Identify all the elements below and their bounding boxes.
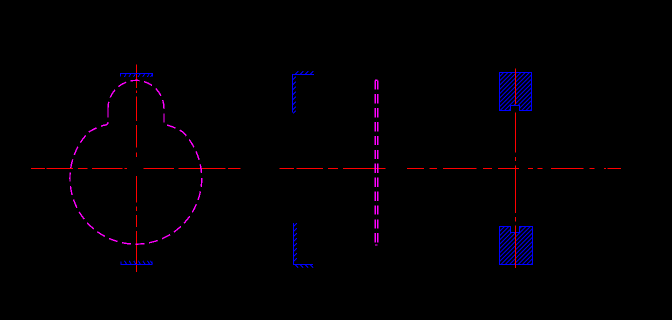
top fixed surface (above cam nose)	[120, 74, 153, 78]
follower plate (hidden outline)	[375, 80, 377, 245]
lower guide block	[500, 227, 533, 265]
lower follower guide bracket	[294, 223, 314, 268]
bottom fixed surface (below cam)	[120, 261, 152, 265]
upper follower guide bracket	[293, 71, 315, 113]
horizontal centerline	[31, 168, 621, 170]
right vertical centerline	[515, 68, 517, 268]
upper guide block	[500, 73, 532, 111]
cam vertical centerline	[136, 64, 138, 272]
cam profile	[70, 80, 202, 244]
